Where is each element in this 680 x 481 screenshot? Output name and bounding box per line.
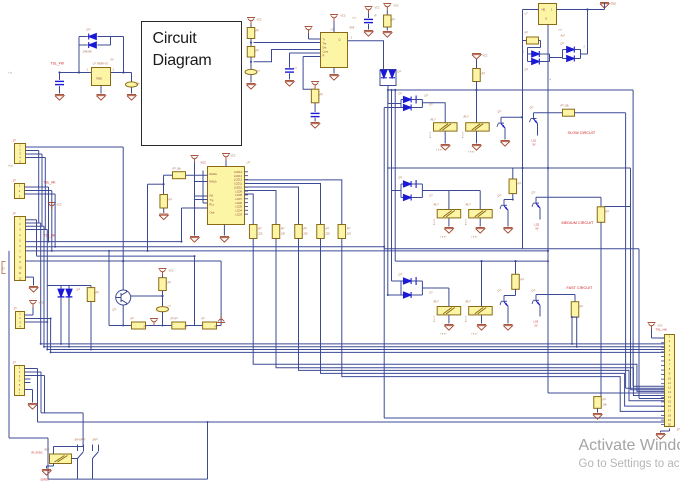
svg-text:5V: 5V <box>111 59 114 62</box>
svg-text:D?: D? <box>525 68 529 72</box>
svg-text:Thr: Thr <box>323 42 327 46</box>
wire Q2 feed to R7 <box>534 112 563 114</box>
ground <box>472 145 481 151</box>
relay K4 <box>469 210 493 218</box>
resistor RC4 <box>317 225 325 239</box>
svg-text:VCC: VCC <box>375 7 380 10</box>
svg-text:1 2 3 4: 1 2 3 4 <box>461 132 463 139</box>
wire <box>401 294 403 296</box>
transistor Q6 <box>532 295 540 311</box>
svg-text:Tr: Tr <box>323 38 325 42</box>
power flag VCC <box>159 269 167 276</box>
resistor R11 <box>571 302 579 317</box>
node Q1 feed <box>521 116 523 118</box>
ground <box>190 237 199 243</box>
relay K5 <box>437 307 461 315</box>
svg-text:LCD6: LCD6 <box>235 201 242 205</box>
svg-text:LCD13: LCD13 <box>234 174 243 178</box>
svg-text:c n: c n <box>353 17 357 20</box>
capacitor C4 <box>285 69 294 72</box>
wire <box>416 99 422 101</box>
resistor R8 <box>509 179 517 194</box>
wire slow diode bracket <box>400 100 402 108</box>
svg-text:RLx: RLx <box>210 203 215 207</box>
svg-text:FAST CIRCUIT: FAST CIRCUIT <box>567 286 594 290</box>
diode D5 <box>532 51 540 57</box>
wire down to diode pair <box>587 10 589 55</box>
svg-text:1N4148: 1N4148 <box>83 50 93 54</box>
wire D2 to right <box>98 44 111 46</box>
diode D2 <box>89 42 97 48</box>
resistor R10 <box>512 274 520 289</box>
node bus c <box>394 89 396 91</box>
wire K7 gnd stub <box>53 464 55 467</box>
LED bar <box>66 296 73 298</box>
svg-text:R?: R? <box>304 227 308 231</box>
ground <box>656 434 665 440</box>
transistor Q1 <box>497 117 505 133</box>
wire J5 pin5 stub <box>25 382 31 384</box>
wire to R6 <box>523 40 527 42</box>
diode D10 <box>404 105 412 111</box>
wire <box>122 289 124 291</box>
svg-text:D?: D? <box>399 273 403 277</box>
wire down <box>48 187 50 242</box>
wire 555 gnd pin <box>333 68 335 74</box>
wire MCU pin to R col <box>245 191 277 225</box>
wire fast top rail <box>395 260 548 262</box>
wire bus line <box>321 239 665 407</box>
svg-text:RL?: RL? <box>464 115 470 119</box>
wire <box>47 465 54 467</box>
wire down to bus <box>147 184 149 251</box>
node C <box>122 71 124 73</box>
resistor RC2 <box>272 225 280 239</box>
svg-text:RL?: RL? <box>434 203 440 207</box>
wire <box>416 183 422 185</box>
wire R3 to C3 <box>250 57 252 70</box>
wire MCU pin2 stub <box>195 181 208 183</box>
ground <box>444 325 453 331</box>
wire R12 left <box>164 174 173 176</box>
wire J5 pin4 stub <box>25 378 31 380</box>
svg-text:10u: 10u <box>136 82 141 86</box>
wire relay K3 feed <box>448 191 450 227</box>
svg-text:t e x t: t e x t <box>441 236 447 239</box>
LED D16 <box>66 289 72 297</box>
power flag VCC <box>191 156 199 163</box>
wire R11 to bus L2 <box>576 317 578 347</box>
wire pair2 right <box>580 50 582 59</box>
svg-text:D?: D? <box>77 288 81 292</box>
node u3drop <box>547 167 549 169</box>
wire R10 bottom <box>515 289 517 295</box>
svg-text:R: R <box>323 54 325 58</box>
wire main rail right <box>111 72 132 74</box>
transistor Q3 <box>500 200 508 216</box>
ground <box>29 287 38 293</box>
svg-text:Cont: Cont <box>323 50 329 54</box>
svg-text:R?: R? <box>202 317 206 321</box>
IC U2 555 timer <box>321 33 348 68</box>
wire osc bottom a <box>109 325 132 327</box>
LED D4 <box>389 70 395 78</box>
wire down L4 <box>50 319 52 353</box>
wire <box>33 277 35 285</box>
node R20 bus <box>475 89 477 91</box>
wire down to relay <box>82 413 84 447</box>
svg-text:R?: R? <box>347 227 351 231</box>
wire diode loop right down <box>123 37 125 73</box>
wire relay pin <box>53 447 55 455</box>
svg-text:R: R <box>375 14 377 18</box>
relay side labels <box>429 132 467 323</box>
svg-text:5V: 5V <box>533 144 536 147</box>
wire to R11 <box>536 294 575 296</box>
wire bus return long <box>383 108 385 419</box>
resistor RC1 <box>249 225 257 239</box>
resistor R17 <box>172 322 186 329</box>
svg-text:VCC: VCC <box>257 19 262 22</box>
relay K7 <box>50 454 72 464</box>
wire R7 out <box>575 112 626 114</box>
svg-text:Q?: Q? <box>498 110 502 114</box>
wire Q6 emitter <box>539 305 541 317</box>
ground <box>285 81 294 87</box>
relay K3 <box>437 210 461 218</box>
svg-text:LCD14: LCD14 <box>234 170 243 174</box>
wire medium bottom border <box>384 248 639 250</box>
switch SW2 <box>93 445 99 480</box>
wire J3 gnd stub <box>26 276 34 278</box>
IC U3 opto driver <box>539 4 557 25</box>
wire MCU pin3 stub <box>195 195 208 197</box>
svg-text:1 2 3 4: 1 2 3 4 <box>464 219 466 226</box>
capacitor C3 <box>245 69 257 74</box>
node mid drop <box>547 250 549 252</box>
wire J2 pin3 <box>25 193 56 195</box>
wire C4 gnd <box>289 73 291 79</box>
wire MCU pin to R col <box>245 180 342 225</box>
wire bottom rail <box>48 478 208 480</box>
svg-text:VCC: VCC <box>658 325 663 328</box>
wire to connector <box>633 385 664 387</box>
wire vcc to MCU <box>225 161 227 167</box>
svg-text:J?: J? <box>677 428 680 432</box>
wire bus L4 <box>51 351 665 353</box>
svg-text:Q?: Q? <box>113 308 117 312</box>
wire right vertical 3 <box>630 168 632 390</box>
ground <box>28 404 37 410</box>
node fast rail a <box>480 260 482 262</box>
svg-text:1 2 3 4: 1 2 3 4 <box>433 219 435 226</box>
wire relay K6 feed <box>481 261 483 323</box>
power flag VCC J6 <box>648 323 656 330</box>
wire to relay K1 <box>422 102 445 104</box>
connector J3 <box>15 217 26 281</box>
wire Q4 to R9 <box>536 196 601 198</box>
svg-text:MEDIUM CIRCUIT: MEDIUM CIRCUIT <box>562 221 595 225</box>
wire to C4 <box>289 53 291 68</box>
svg-text:VCC: VCC <box>201 161 207 165</box>
resistor R14 <box>87 288 95 302</box>
wire LED feed <box>47 285 91 287</box>
wire to slow diode loop <box>388 103 401 105</box>
diode D14 <box>404 292 412 298</box>
ground <box>500 141 509 147</box>
svg-text:R?: R? <box>518 182 522 186</box>
title box <box>142 22 242 146</box>
wire long down L1 <box>40 223 42 344</box>
wire <box>32 390 34 403</box>
wire U3 left pin <box>523 9 539 11</box>
svg-text:5DFD6: 5DFD6 <box>41 478 50 481</box>
resistor R2 <box>247 28 255 39</box>
wire K7 contact out <box>72 458 78 460</box>
wire J4 pin1 <box>25 314 34 316</box>
svg-text:Circuit: Circuit <box>153 30 198 47</box>
wire J5 pin2 <box>25 371 42 373</box>
wire long down L2 <box>43 226 45 346</box>
wire node down <box>387 90 389 104</box>
svg-text:R?: R? <box>580 305 584 309</box>
svg-text:R? R?: R? R? <box>171 317 179 321</box>
svg-text:Trg: Trg <box>210 198 214 202</box>
ground <box>441 145 450 151</box>
svg-text:R? 10k: R? 10k <box>173 167 182 171</box>
wire to R4 <box>303 57 315 90</box>
wire C3 to ground <box>250 75 252 83</box>
wire J6 pin1 <box>652 337 665 339</box>
wire J2 pin1 <box>25 186 49 188</box>
wire down <box>44 376 46 413</box>
wire right vertical 2 <box>625 113 627 389</box>
switch SW1 <box>78 445 84 480</box>
wire LED2 down <box>68 297 70 347</box>
wire RC node to 555 thr <box>254 50 321 62</box>
diode bar <box>415 180 417 188</box>
wire to Q5 <box>504 295 516 297</box>
node osc2 <box>161 295 163 297</box>
ground <box>220 237 229 243</box>
svg-text:R?: R? <box>521 278 525 282</box>
wire long left down <box>522 10 524 249</box>
wire down <box>40 372 42 413</box>
connector J2 <box>15 184 25 199</box>
wire J3 pin3 <box>26 225 45 227</box>
svg-text:R?: R? <box>326 227 330 231</box>
svg-text:220: 220 <box>325 233 331 236</box>
wire R11 bottom stub <box>572 316 578 318</box>
svg-text:SW-SPDT: SW-SPDT <box>75 439 87 442</box>
diode D1 <box>89 34 97 40</box>
wire branch left <box>148 183 164 185</box>
wire Q1 feed <box>501 116 522 118</box>
wire bus drop medium/fast <box>391 90 393 281</box>
svg-text:RL?: RL? <box>434 300 440 304</box>
wire R5 gnd <box>386 27 388 31</box>
ground <box>364 31 373 37</box>
svg-text:c n: c n <box>257 70 261 73</box>
wire pin6 down <box>181 208 183 242</box>
wire J3 row c longest <box>26 250 549 252</box>
resistor R19 <box>594 397 602 409</box>
resistor R6 <box>527 37 539 44</box>
wire relay K4 feed <box>479 191 481 227</box>
svg-text:R?: R? <box>96 291 100 295</box>
svg-text:R?: R? <box>131 317 135 321</box>
svg-text:J?: J? <box>13 361 17 365</box>
capacitor C5 <box>311 113 320 116</box>
wire join <box>549 54 551 62</box>
power flag <box>305 27 313 34</box>
wire bus L3 <box>47 349 664 351</box>
wire bus drop fast2 <box>387 90 389 295</box>
wire down <box>36 220 38 256</box>
wire down <box>51 191 53 251</box>
svg-text:VCC: VCC <box>394 5 399 8</box>
net port D <box>2 262 6 274</box>
wire loop right <box>421 100 423 108</box>
wire R11 to bus L1 <box>571 317 573 344</box>
ground <box>329 75 338 81</box>
wire C7 down <box>162 312 164 326</box>
ground <box>444 228 453 234</box>
LED bar <box>58 296 65 298</box>
power flag VCC <box>29 301 37 308</box>
svg-text:RL?: RL? <box>466 203 472 207</box>
svg-text:J?: J? <box>13 212 17 216</box>
wire J5 pin3 <box>25 375 45 377</box>
diode bar <box>415 277 417 285</box>
svg-text:t e x t: t e x t <box>441 333 447 336</box>
svg-text:t e x t: t e x t <box>437 149 443 152</box>
wire up <box>32 308 34 316</box>
wire <box>411 280 416 282</box>
wire MCU pin5 stub b <box>203 202 208 204</box>
svg-text:TSL_FW: TSL_FW <box>51 62 65 66</box>
relay K2 <box>466 123 490 131</box>
wire bus line <box>253 239 664 392</box>
svg-text:J?: J? <box>13 139 17 143</box>
svg-text:LCD10: LCD10 <box>234 185 243 189</box>
wire R14 down L3 <box>90 302 92 350</box>
node bus b <box>390 89 392 91</box>
wire to D5 <box>528 53 532 55</box>
svg-text:Diagram: Diagram <box>153 52 212 69</box>
wire U3 bottom long down <box>547 25 549 394</box>
wire top bus <box>388 89 633 91</box>
wire bottom link <box>9 437 48 439</box>
wire to fast diode2 <box>388 294 401 296</box>
wire osc bottom d <box>217 325 222 327</box>
wire loop right <box>421 281 423 295</box>
svg-text:Activate Windows: Activate Windows <box>579 437 680 454</box>
svg-text:Q?: Q? <box>532 191 536 195</box>
resistor R3 <box>247 47 255 58</box>
wire down to bus <box>37 369 39 423</box>
svg-text:D?: D? <box>398 70 402 74</box>
power flag <box>365 7 373 14</box>
svg-text:TSL_HK: TSL_HK <box>44 181 57 185</box>
wire <box>411 294 422 296</box>
svg-text:LS1: LS1 <box>532 139 537 143</box>
wire right side down <box>220 261 222 326</box>
wire <box>411 197 422 199</box>
wire to fast diode <box>392 280 404 282</box>
svg-text:TSL_HK: TSL_HK <box>656 328 667 332</box>
svg-text:VCC: VCC <box>169 270 174 273</box>
wire pair2 left <box>562 50 564 59</box>
power flag <box>383 4 391 11</box>
svg-text:1 2 3 4: 1 2 3 4 <box>464 316 466 323</box>
wire long down to Q7 <box>122 147 124 290</box>
wire Q5 emitter <box>507 306 509 324</box>
wire relay top <box>54 446 84 448</box>
svg-text:h d r: h d r <box>9 165 14 168</box>
wire 555 dis <box>303 56 320 58</box>
svg-text:R?: R? <box>603 398 607 402</box>
svg-text:VI VO: VI VO <box>102 63 109 66</box>
wire R14 top <box>90 286 92 288</box>
node R13 <box>162 183 164 185</box>
wire to connector <box>631 389 665 391</box>
ground <box>55 95 64 101</box>
connector J6 <box>665 335 675 427</box>
wire osc left side <box>108 251 110 326</box>
node RC <box>250 61 252 63</box>
wire J3 pin1 <box>26 219 37 221</box>
node U3 out <box>586 8 588 10</box>
power flag <box>311 82 319 89</box>
power flag VCC <box>247 18 255 25</box>
svg-text:R?: R? <box>281 227 285 231</box>
svg-text:NE: NE <box>542 8 546 12</box>
wire long bottom bus <box>38 421 665 423</box>
wire stub <box>384 107 401 109</box>
wire J5 pin1 <box>25 368 38 370</box>
wire J1 pin4 <box>26 157 46 159</box>
wire R4 to C5 <box>314 103 316 112</box>
wire relay K5 feed <box>448 288 450 324</box>
wire <box>308 34 310 40</box>
diode D8 <box>567 56 575 62</box>
svg-text:Osb: Osb <box>210 211 215 215</box>
svg-text:R?: R? <box>482 72 486 76</box>
wire relay feed rail <box>41 412 83 414</box>
svg-text:220: 220 <box>280 233 286 236</box>
wire D6 out <box>540 61 550 63</box>
wire vcc rail down <box>194 163 196 236</box>
power flag VCC MCU <box>222 154 230 161</box>
wire down <box>540 41 542 48</box>
transistor Q7 <box>116 290 131 305</box>
svg-text:7805: 7805 <box>96 77 102 81</box>
wire U3 out <box>557 9 605 11</box>
ground <box>246 84 255 90</box>
svg-text:D?: D? <box>561 42 565 46</box>
transistor Q2 <box>530 113 538 129</box>
svg-text:RL?: RL? <box>45 448 50 452</box>
wire J1 pin3 <box>26 153 43 155</box>
power flag VCC <box>48 203 56 210</box>
wire <box>368 14 370 19</box>
wire MCU gnd b <box>223 225 225 236</box>
wire bus line <box>276 239 665 396</box>
svg-text:c n: c n <box>294 67 298 70</box>
wire divider to 555 pin <box>254 42 321 44</box>
power flag VCC 555 <box>330 15 338 22</box>
